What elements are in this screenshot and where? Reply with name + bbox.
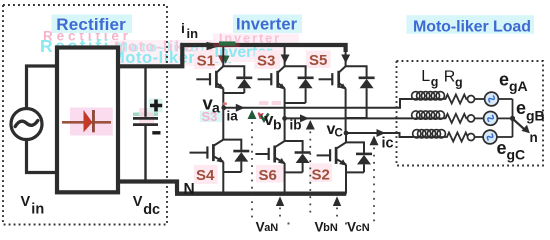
source e_gC circle (483, 130, 497, 144)
rectifier diode highlight band (70, 108, 113, 136)
label S6 highlight (256, 165, 285, 183)
terminal circle phase C (468, 134, 475, 141)
ghost red tick above node a (223, 103, 227, 105)
wire: rectifier to DC+ rail (118, 47, 182, 66)
diode D4 antiparallel S4 (223, 140, 249, 172)
wire: S5 emitter to node c (345, 88, 347, 133)
ghost highlight band Moto-liker Load (110, 40, 231, 66)
wire: terminal to source A (475, 98, 485, 100)
resistor Rg phase B (412, 114, 468, 123)
IGBT S6 emitter arrow (278, 158, 286, 164)
label S4 highlight (194, 165, 218, 184)
arrow into S1 leg (green) (222, 56, 230, 64)
terminal circle phase A (468, 96, 475, 103)
arrow VaN up (green) (248, 110, 257, 119)
IGBT S4 (190, 108, 224, 162)
arrow i_in (207, 42, 221, 50)
label S5 highlight (306, 51, 331, 69)
capacitor plus sign (150, 100, 162, 112)
svg-text:R: R (444, 69, 456, 86)
IGBT S5 emitter arrow (339, 83, 346, 89)
svg-text:g: g (455, 76, 463, 90)
IGBT S3 emitter arrow (278, 83, 285, 89)
label S1 highlight (194, 51, 216, 70)
svg-text:bN: bN (323, 222, 338, 234)
node n junction (510, 116, 515, 121)
wire: S3 emitter to node b (284, 88, 286, 118)
svg-text:in: in (31, 202, 44, 218)
IGBT S3 (258, 47, 285, 88)
wire: phase b (285, 117, 412, 119)
resistor Rg phase C (413, 133, 468, 142)
ghost maroon streak on rail (214, 43, 240, 47)
svg-text:S2: S2 (312, 167, 330, 184)
arrow VbN up (306, 120, 315, 130)
wire: rectifier to DC- rail (118, 182, 177, 192)
rectifier box (57, 48, 118, 193)
svg-text:gA: gA (509, 78, 528, 94)
diode D3 antiparallel S3 (285, 66, 314, 103)
capacitor Cdc bottom lead (144, 126, 146, 181)
arrow into S3 leg (281, 55, 290, 64)
arrow ib on phase b (300, 114, 309, 122)
wire: source A to node n branch (498, 98, 512, 100)
label: Inverter header highlight (233, 15, 302, 34)
source e_gB circle (484, 112, 498, 126)
svg-text:i: i (181, 20, 185, 36)
wire: DC+ top rail (180, 45, 345, 52)
svg-text:aN: aN (264, 222, 278, 234)
terminal circle phase B (468, 115, 475, 122)
diode D1 antiparallel S1 (223, 66, 252, 93)
wire: Vin bottom to rectifier (27, 140, 58, 173)
section border: rectifier dotted box (3, 5, 167, 225)
wire: terminal to source B (475, 117, 484, 119)
wire: Vin top to rectifier (27, 66, 58, 109)
svg-text:ia: ia (227, 109, 239, 124)
arrow ic on phase c (377, 129, 386, 137)
svg-text:e: e (499, 69, 509, 89)
svg-text:ic: ic (382, 136, 394, 152)
svg-text:S3: S3 (257, 52, 275, 69)
svg-text:Inverter: Inverter (236, 16, 298, 34)
wire: S2 emitter to rail N (345, 164, 347, 193)
wire: S4 emitter to rail N (222, 162, 224, 194)
label: Rectifier header highlight (52, 15, 133, 34)
svg-text:ib: ib (290, 118, 302, 133)
wire: source C to node n (497, 136, 513, 138)
source e_gA circle (485, 92, 499, 106)
node v_b (282, 116, 287, 121)
capacitor Cdc top lead (144, 68, 146, 117)
measurement dotted line VaN lower (279, 208, 281, 218)
svg-text:n: n (530, 130, 538, 145)
svg-text:e: e (497, 138, 507, 158)
svg-text:S5: S5 (309, 52, 327, 69)
svg-text:S1: S1 (197, 52, 215, 69)
AC source Vin sine (15, 121, 38, 127)
ghost highlight band S3 under v_a (200, 111, 222, 122)
svg-text:cN: cN (356, 222, 370, 234)
capacitor minus sign (152, 131, 160, 134)
rectifier diode wire (62, 121, 111, 124)
ghost green tint above capacitor plate (133, 113, 158, 117)
ghost highlight band Inverter (213, 34, 299, 44)
measurement dotted line VbN upper (309, 132, 311, 216)
wire: S1 emitter to node a (222, 88, 224, 108)
capacitor Cdc plates (133, 118, 158, 124)
svg-text:N: N (184, 181, 195, 198)
wire: phase a (224, 99, 412, 108)
diode D6 antiparallel S6 (285, 141, 311, 172)
arrow to n (514, 120, 526, 131)
IGBT S2 (317, 133, 346, 164)
wire: neutral vertical (512, 99, 514, 137)
measurement dotted line VaN upper (251, 122, 253, 222)
arrow VcN up (370, 136, 379, 146)
label: Moto-liker Load header highlight (407, 15, 535, 34)
svg-text:C: C (335, 128, 343, 140)
arrow into S1 leg (red ghost) (218, 55, 226, 63)
inductor Lg phase B (412, 111, 445, 119)
svg-text:Moto-liker Load: Moto-liker Load (413, 18, 531, 35)
wire: source B to node n (497, 117, 512, 119)
IGBT S4 emitter arrow (216, 157, 224, 163)
svg-text:V: V (133, 194, 143, 210)
IGBT S1 emitter arrow (217, 83, 224, 89)
svg-text:S4: S4 (196, 167, 215, 184)
IGBT S5 (319, 50, 346, 88)
dot after VaN (288, 223, 290, 225)
node v_a (221, 105, 226, 110)
ghost teal tint behind capacitor plus (149, 99, 163, 113)
arrow ia on phase a (236, 104, 245, 112)
inductor Lg phase A (412, 92, 445, 100)
wire: phase c (346, 133, 413, 137)
svg-text:g: g (431, 75, 439, 89)
label S2 highlight (309, 164, 332, 183)
wire: S6 emitter to rail N (284, 163, 286, 194)
ghost pink behind capacitor plates (139, 108, 154, 124)
svg-text:e: e (516, 98, 526, 118)
ghost green v with red tick left of label v_b (259, 113, 269, 121)
svg-text:in: in (187, 26, 199, 41)
svg-text:gC: gC (507, 146, 526, 162)
diode D5 antiparallel S5 (346, 66, 375, 118)
ghost pink dashes above v_b (259, 101, 269, 105)
node v_c (344, 131, 349, 136)
wire: terminal to source C (475, 136, 484, 138)
label S3 highlight (255, 51, 281, 70)
AC source Vin circle (11, 109, 42, 140)
svg-text:b: b (273, 117, 282, 133)
diode D2 antiparallel S2 (346, 142, 372, 172)
svg-text:V: V (21, 194, 31, 210)
arrow into S5 leg (341, 55, 350, 64)
measurement dotted line VbN lower (336, 208, 338, 218)
resistor Rg phase A (412, 95, 468, 104)
dot after VbN (345, 223, 347, 225)
arrow VaN at rail N (276, 196, 284, 206)
ghost green stroke on rail (219, 41, 236, 45)
inductor Lg phase C (413, 130, 446, 138)
rectifier diode triangle (84, 112, 92, 132)
wire: DC- rail node N (175, 191, 346, 195)
IGBT S1 (196, 47, 223, 88)
rectifier diode cathode bar (92, 110, 95, 132)
IGBT S2 emitter arrow (339, 159, 347, 165)
section border: load dotted box (397, 61, 544, 166)
arrow VbN at rail N (333, 196, 341, 206)
svg-text:Rectifier: Rectifier (56, 15, 126, 34)
svg-text:gB: gB (526, 108, 545, 124)
svg-text:dc: dc (143, 202, 160, 218)
svg-text:S6: S6 (259, 167, 277, 184)
measurement dotted line VcN (373, 148, 375, 224)
svg-text:L: L (421, 68, 430, 85)
IGBT S6 (255, 118, 284, 163)
svg-text:a: a (212, 100, 220, 116)
